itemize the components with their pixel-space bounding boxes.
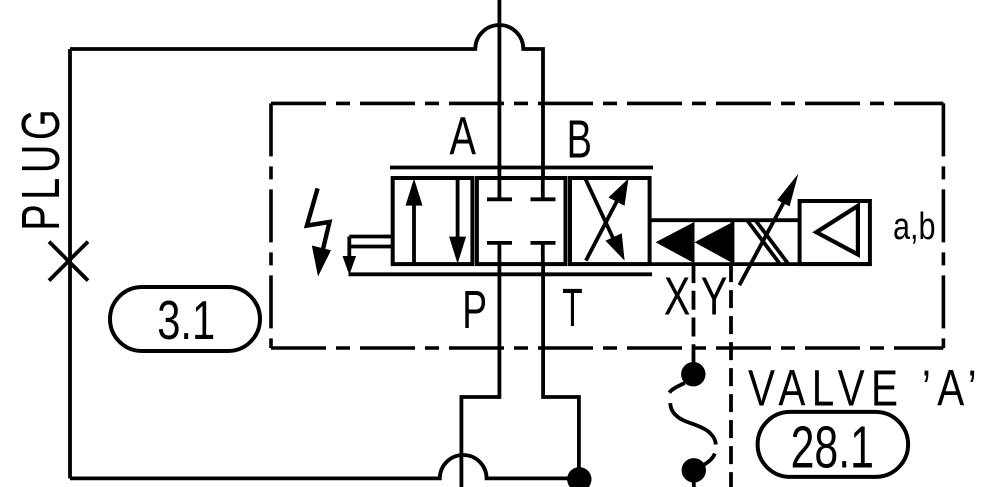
- border dash-dot box: [271, 103, 943, 348]
- wire: bottom loop horizontal with hop: [70, 455, 580, 478]
- valve box 2 (blocked centre): [477, 178, 566, 264]
- box3 arrow BL to TR: [586, 179, 629, 261]
- solenoid triangle 2 (filled): [695, 222, 734, 264]
- pilot end box: [800, 201, 870, 264]
- wire: left loop vertical: [68, 49, 72, 478]
- box2 stub P bottom: [487, 243, 512, 264]
- wire: T line down with step-out to right, to bottom loop: [543, 264, 579, 478]
- tag 3.1 stadium: [110, 287, 260, 351]
- box3 arrow TL to BR: [585, 178, 625, 261]
- box2 stub A top: [487, 178, 512, 199]
- svg-text:28.1: 28.1: [791, 415, 874, 481]
- svg-text:P: P: [462, 281, 487, 340]
- box2 stub T bottom: [531, 243, 556, 264]
- svg-text:VALVE ’A’: VALVE ’A’: [748, 359, 983, 416]
- svg-text:X: X: [664, 268, 690, 327]
- pilot line X (dashed): [692, 264, 696, 374]
- lightning bolt (electric actuation): [307, 188, 331, 276]
- pilot end box triangle (outline): [816, 206, 858, 255]
- solenoid triangle 1 (filled): [656, 222, 695, 264]
- pilot line Y (dashed): [729, 264, 733, 487]
- valve thin top line: [390, 166, 653, 170]
- wire below bottom node: [692, 481, 696, 487]
- svg-text:T: T: [562, 279, 582, 338]
- solenoid divider: [731, 220, 735, 264]
- tag 28.1 stadium: [758, 412, 909, 477]
- wire: P line down with step-out to left, continues off page: [461, 264, 499, 487]
- flexible hose segment 2 (middle of S): [670, 403, 716, 444]
- junction dot T/bottom loop: [567, 467, 591, 487]
- box1 down arrow: [449, 178, 466, 264]
- svg-text:a,b: a,b: [893, 206, 936, 248]
- box1 up arrow: [406, 179, 423, 265]
- node dot X top: [681, 362, 705, 386]
- flexible hose segment 1: [669, 383, 685, 393]
- svg-text:A: A: [450, 107, 477, 166]
- svg-text:3.1: 3.1: [157, 289, 215, 351]
- wire: top horizontal with hop over A line, then B drop: [70, 25, 543, 178]
- valve box 3 (crossed arrows): [570, 178, 650, 264]
- flexible hose segment 3: [704, 454, 715, 465]
- svg-text:PLUG: PLUG: [11, 105, 71, 231]
- node dot X bottom: [682, 458, 706, 482]
- box2 stub B top: [531, 178, 556, 199]
- solenoid band top line: [650, 218, 800, 222]
- solenoid band bottom line: [650, 262, 870, 266]
- wire: A line from top edge to valve: [497, 0, 501, 178]
- valve box 1 (parallel arrows): [393, 178, 473, 264]
- valve thin bottom line: [349, 272, 653, 276]
- svg-text:B: B: [567, 110, 592, 169]
- plug cross: [49, 242, 88, 281]
- pilot channel on valve left: [343, 237, 393, 276]
- proportional adjustment arrow: [739, 174, 798, 285]
- proportional double slash: [748, 221, 788, 264]
- svg-text:Y: Y: [701, 268, 728, 327]
